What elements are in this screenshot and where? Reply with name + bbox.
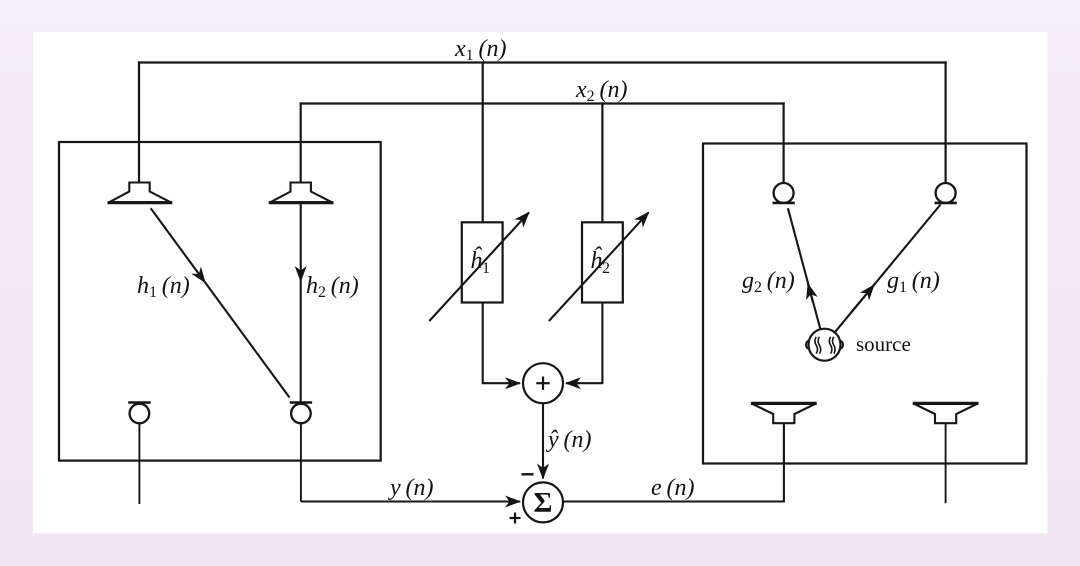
wire y(n) into sigma bbox=[301, 500, 497, 502]
svg-text:g1 (n): g1 (n) bbox=[887, 268, 940, 296]
wire x1 drop to loudspeaker LS1 bbox=[138, 63, 140, 183]
source head bbox=[806, 329, 843, 361]
path g1 arrow from source to MR2 bbox=[835, 205, 941, 333]
svg-text:e (n): e (n) bbox=[651, 475, 694, 501]
microphone M1 bbox=[128, 403, 150, 505]
arrow yhat down to sigma bbox=[542, 403, 544, 478]
microphone MR2 bbox=[935, 183, 957, 203]
arrow into adder right bbox=[566, 382, 589, 384]
path h1 arrow continuation bbox=[205, 282, 290, 397]
right ear bbox=[840, 341, 843, 349]
adaptive filter box h2 bbox=[582, 222, 623, 302]
loudspeaker LS2 bbox=[269, 183, 334, 203]
right room box bbox=[703, 144, 1027, 464]
microphone M2 bbox=[290, 403, 312, 502]
path g2 arrow from source to MR1 bbox=[788, 208, 821, 329]
wire x1 drop to microphone MR2 bbox=[944, 63, 946, 184]
loudspeaker LS1 bbox=[108, 183, 173, 203]
squiggle right bbox=[829, 337, 832, 354]
svg-text:h1 (n): h1 (n) bbox=[137, 273, 190, 301]
svg-text:y (n): y (n) bbox=[388, 475, 433, 501]
svg-text:g2 (n): g2 (n) bbox=[742, 268, 795, 296]
arrow into adder left bbox=[497, 382, 520, 384]
svg-text:Σ: Σ bbox=[534, 487, 553, 519]
wire x2 horizontal bbox=[301, 102, 784, 104]
wire x2 drop to loudspeaker LS2 bbox=[300, 104, 302, 183]
wire x1 drop to filter h1 bbox=[482, 63, 484, 223]
path h1 arrow bbox=[151, 208, 205, 282]
wire h1 output to adder bbox=[483, 303, 497, 384]
adaptive arrow through h2 bbox=[549, 212, 649, 321]
adaptive filter box h1 bbox=[462, 222, 503, 302]
wire x2 drop to microphone MR1 bbox=[782, 104, 784, 184]
adder circle plus bbox=[523, 363, 563, 403]
svg-text:source: source bbox=[856, 332, 911, 356]
svg-text:h2 (n): h2 (n) bbox=[306, 273, 359, 301]
loudspeaker LR2 (inverted) bbox=[913, 403, 979, 503]
path h2 arrow bbox=[300, 204, 302, 281]
arrow into sigma bbox=[497, 500, 520, 502]
sigma circle bbox=[523, 482, 563, 522]
path g2 arrowhead bbox=[808, 284, 813, 302]
path h2 arrow continuation bbox=[300, 281, 302, 402]
svg-text:ŷ (n): ŷ (n) bbox=[546, 427, 591, 453]
adaptive arrow through h1 bbox=[429, 212, 529, 321]
svg-text:x2 (n): x2 (n) bbox=[575, 77, 627, 105]
squiggle left bbox=[815, 337, 818, 354]
svg-text:x1 (n): x1 (n) bbox=[454, 36, 506, 64]
wire e(n) from sigma to right room bbox=[563, 423, 784, 501]
wire x1 horizontal bbox=[139, 61, 946, 63]
wire x2 drop to filter h2 bbox=[601, 104, 603, 223]
wire h2 output to adder bbox=[589, 303, 602, 384]
label plus bbox=[510, 513, 521, 524]
label minus bbox=[522, 473, 534, 475]
left ear bbox=[806, 341, 809, 349]
microphone MR1 bbox=[773, 183, 795, 203]
loudspeaker LR1 (inverted) bbox=[751, 403, 817, 463]
left room box bbox=[59, 142, 381, 461]
